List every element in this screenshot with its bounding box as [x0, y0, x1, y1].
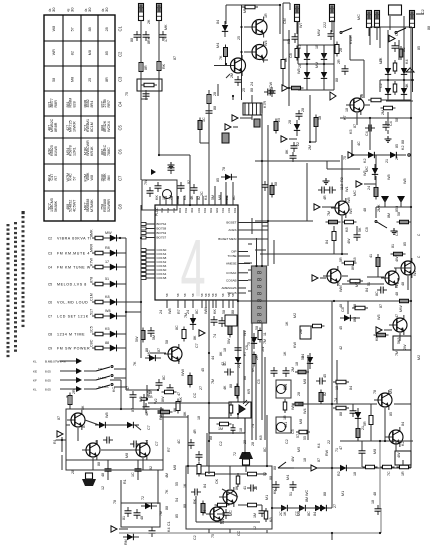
svg-text:58: 58 [52, 78, 56, 82]
svg-text:8MK: 8MK [90, 229, 94, 237]
svg-text:2C: 2C [200, 191, 204, 196]
svg-text:4W: 4W [291, 456, 295, 462]
svg-text:88: 88 [105, 341, 109, 345]
svg-text:82: 82 [323, 392, 327, 396]
svg-text:VOL.MD LOUD: VOL.MD LOUD [57, 301, 88, 305]
svg-text:48: 48 [339, 304, 343, 308]
svg-text:B00: B00 [190, 208, 194, 213]
svg-text:28: 28 [288, 120, 292, 124]
svg-text:COSAF: COSAF [226, 271, 237, 275]
svg-text:57: 57 [73, 176, 77, 180]
svg-text:8C: 8C [375, 291, 379, 296]
svg-text:858: 858 [395, 206, 399, 212]
svg-text:W8: W8 [387, 174, 391, 180]
svg-text:M8: M8 [373, 449, 377, 454]
svg-text:78: 78 [113, 500, 117, 504]
svg-text:WR: WR [52, 49, 56, 55]
svg-text:55: 55 [303, 436, 307, 440]
svg-text:MC: MC [229, 510, 233, 516]
svg-text:2M: 2M [381, 110, 385, 115]
svg-text:18: 18 [315, 45, 319, 49]
svg-text:51: 51 [105, 277, 109, 281]
svg-text:CC: CC [237, 530, 241, 536]
svg-text:84: 84 [203, 484, 207, 488]
svg-text:MK7: MK7 [84, 202, 88, 210]
svg-text:8R4: 8R4 [90, 101, 94, 108]
svg-text:45: 45 [201, 368, 205, 372]
svg-text:25: 25 [277, 118, 281, 122]
svg-text:8R: 8R [144, 65, 148, 70]
svg-text:B03: B03 [233, 208, 237, 213]
svg-text:88: 88 [243, 376, 247, 380]
svg-text:487: 487 [48, 125, 52, 131]
svg-text:28: 28 [339, 48, 343, 52]
svg-text:87: 87 [82, 424, 86, 428]
svg-text:12: 12 [253, 526, 257, 530]
svg-text:18: 18 [162, 196, 166, 200]
svg-text:B04: B04 [184, 208, 188, 213]
svg-text:2M: 2M [299, 329, 303, 334]
svg-text:2MK: 2MK [377, 204, 381, 212]
svg-text:8C: 8C [307, 511, 311, 516]
svg-text:R8: R8 [105, 246, 110, 250]
svg-text:4W: 4W [347, 238, 351, 244]
svg-text:1K: 1K [285, 321, 289, 326]
svg-text:B07: B07 [227, 208, 231, 213]
svg-text:24: 24 [367, 186, 371, 190]
svg-text:88: 88 [145, 348, 149, 352]
svg-text:85: 85 [95, 440, 99, 444]
svg-text:25: 25 [88, 78, 92, 82]
svg-text:88: 88 [209, 436, 213, 440]
svg-text:27: 27 [199, 386, 203, 390]
svg-text:48: 48 [373, 492, 377, 496]
svg-text:1R: 1R [401, 471, 405, 476]
svg-text:KK: KK [213, 309, 217, 314]
svg-text:1K: 1K [283, 511, 287, 516]
svg-text:W8: W8 [168, 308, 172, 314]
svg-text:C6: C6 [48, 301, 52, 305]
svg-text:8R: 8R [149, 389, 153, 394]
svg-text:M54: M54 [66, 148, 70, 155]
svg-text:7M: 7M [327, 211, 331, 216]
svg-text:58: 58 [255, 326, 259, 330]
svg-text:W5: W5 [377, 314, 381, 320]
svg-text:58: 58 [301, 356, 305, 360]
svg-text:VIBRA 60KVA TI: VIBRA 60KVA TI [57, 237, 92, 241]
svg-text:C7: C7 [155, 441, 159, 446]
svg-text:222: 222 [323, 22, 327, 28]
svg-text:82: 82 [149, 466, 153, 470]
svg-text:KE: KE [33, 370, 37, 374]
svg-text:85: 85 [389, 412, 393, 416]
svg-text:MC: MC [251, 366, 255, 372]
svg-text:4R: 4R [145, 411, 149, 416]
svg-text:88: 88 [97, 462, 101, 466]
svg-text:AMESE: AMESE [226, 262, 237, 266]
svg-text:8K: 8K [285, 149, 289, 154]
svg-text:R7: R7 [243, 351, 247, 356]
svg-text:C7: C7 [147, 425, 151, 430]
svg-text:85: 85 [417, 46, 421, 50]
svg-text:88: 88 [250, 88, 254, 92]
svg-text:M8: M8 [71, 77, 75, 82]
svg-text:8: 8 [257, 305, 264, 309]
svg-text:K8: K8 [183, 195, 187, 200]
svg-text:72: 72 [141, 496, 145, 500]
svg-text:7K: 7K [219, 55, 223, 60]
svg-text:KR: KR [247, 389, 251, 394]
svg-text:C2: C2 [193, 535, 197, 540]
svg-text:C2: C2 [379, 83, 383, 88]
svg-text:PLCC: PLCC [155, 207, 159, 216]
svg-text:C8: C8 [48, 333, 52, 337]
svg-text:W8: W8 [105, 412, 109, 418]
svg-text:1M: 1M [218, 427, 223, 431]
svg-text:488: 488 [66, 204, 70, 210]
svg-text:B07: B07 [197, 208, 201, 213]
svg-text:K2: K2 [363, 158, 367, 163]
svg-text:87C: 87C [101, 100, 105, 107]
svg-text:S8: S8 [214, 293, 218, 297]
svg-text:C3: C3 [118, 76, 123, 82]
svg-text:W.7.M L: W.7.M L [98, 385, 109, 389]
svg-text:TO BE: TO BE [228, 254, 237, 258]
svg-text:R7: R7 [167, 447, 171, 452]
svg-text:481: 481 [284, 422, 288, 428]
svg-text:4C: 4C [177, 439, 181, 444]
svg-text:KL: KL [33, 360, 37, 364]
svg-text:C8: C8 [289, 53, 293, 58]
svg-text:K7R: K7R [263, 100, 267, 108]
svg-text:M4: M4 [389, 389, 393, 394]
svg-text:K8: K8 [269, 517, 273, 522]
svg-text:5K: 5K [81, 405, 85, 410]
svg-text:88: 88 [165, 506, 169, 510]
svg-text:4C: 4C [223, 361, 227, 366]
svg-text:52: 52 [263, 472, 267, 476]
svg-text:47: 47 [177, 392, 181, 396]
svg-text:M8: M8 [218, 195, 222, 200]
svg-text:5M: 5M [211, 195, 215, 200]
svg-text:4K: 4K [405, 83, 409, 88]
svg-text:MC: MC [357, 14, 361, 20]
svg-text:5C1: 5C1 [84, 124, 88, 131]
svg-text:88: 88 [401, 140, 405, 144]
svg-text:K8: K8 [345, 227, 349, 232]
svg-text:C5: C5 [257, 379, 261, 384]
svg-text:RK: RK [193, 498, 197, 504]
svg-text:74: 74 [213, 334, 217, 338]
svg-text:58: 58 [397, 212, 401, 216]
svg-text:RR7: RR7 [107, 100, 111, 107]
svg-text:K7W: K7W [90, 257, 94, 266]
svg-text:88: 88 [88, 27, 92, 31]
svg-text:8M: 8M [107, 175, 111, 180]
svg-text:B02: B02 [172, 208, 176, 213]
svg-text:R8: R8 [225, 195, 229, 200]
svg-text:4s: 4s [101, 8, 105, 12]
svg-text:8M: 8M [387, 213, 391, 218]
svg-text:M8: M8 [125, 453, 129, 458]
svg-text:C5: C5 [291, 429, 295, 434]
svg-text:W8: W8 [52, 26, 56, 32]
svg-text:88: 88 [213, 106, 217, 110]
svg-text:5K: 5K [358, 227, 362, 232]
svg-text:51: 51 [289, 492, 293, 496]
svg-text:8M: 8M [305, 497, 309, 502]
svg-text:1R: 1R [264, 13, 268, 18]
svg-text:828: 828 [73, 101, 77, 107]
svg-text:11.5 K: 11.5 K [98, 376, 106, 380]
svg-text:47: 47 [395, 314, 399, 318]
svg-text:45: 45 [339, 326, 343, 330]
svg-text:78: 78 [222, 167, 226, 171]
svg-text:C8C: C8C [90, 339, 94, 347]
svg-text:18: 18 [353, 472, 357, 476]
svg-text:8M: 8M [353, 317, 357, 322]
svg-text:C2: C2 [48, 237, 52, 241]
svg-text:8.05: 8.05 [45, 379, 51, 383]
svg-text:8.05: 8.05 [45, 370, 51, 374]
svg-text:758: 758 [101, 204, 105, 210]
svg-text:81: 81 [391, 244, 395, 248]
svg-text:C8: C8 [365, 227, 369, 232]
svg-text:FM SW POWER: FM SW POWER [57, 347, 90, 351]
svg-text:M4: M4 [286, 475, 290, 480]
svg-text:81W8: 81W8 [54, 146, 58, 156]
svg-text:C2: C2 [285, 439, 289, 444]
svg-text:44: 44 [211, 356, 215, 360]
svg-text:BGSET MESI: BGSET MESI [218, 237, 236, 241]
svg-text:8C: 8C [175, 325, 179, 330]
svg-text:4W: 4W [395, 256, 399, 262]
svg-text:28: 28 [297, 392, 301, 396]
svg-text:87: 87 [317, 458, 321, 462]
svg-text:18: 18 [197, 416, 201, 420]
svg-text:45: 45 [323, 374, 327, 378]
svg-text:W4: W4 [264, 40, 268, 46]
svg-text:8RK: 8RK [147, 36, 151, 44]
svg-text:MW: MW [105, 231, 112, 235]
svg-text:C5: C5 [118, 124, 123, 130]
svg-text:K2: K2 [401, 441, 405, 446]
svg-text:K4: K4 [204, 195, 208, 200]
svg-text:5R: 5R [363, 421, 367, 426]
svg-text:821: 821 [48, 101, 52, 107]
svg-text:M4: M4 [216, 43, 220, 48]
svg-text:5C7: 5C7 [48, 203, 52, 210]
svg-text:M1: M1 [265, 495, 269, 500]
svg-text:1M: 1M [253, 513, 257, 518]
svg-text:2M: 2M [308, 145, 312, 150]
svg-text:82: 82 [71, 51, 75, 55]
svg-text:MELOD.LVS 8: MELOD.LVS 8 [57, 283, 87, 287]
svg-text:84: 84 [349, 386, 353, 390]
svg-text:W7M: W7M [66, 173, 70, 182]
svg-text:W1: W1 [345, 186, 349, 192]
svg-text:2M: 2M [291, 367, 295, 372]
svg-text:8W: 8W [351, 264, 355, 270]
svg-text:1K: 1K [183, 483, 187, 488]
svg-text:KK: KK [179, 397, 183, 402]
svg-text:81: 81 [122, 516, 126, 520]
svg-text:84: 84 [145, 440, 149, 444]
svg-text:W2: W2 [413, 270, 417, 276]
svg-text:W5: W5 [363, 170, 367, 176]
svg-text:28: 28 [71, 470, 75, 474]
svg-text:8: 8 [257, 312, 264, 316]
svg-text:WM: WM [339, 285, 343, 292]
svg-text:2K: 2K [147, 19, 151, 24]
svg-text:47: 47 [339, 446, 343, 450]
svg-text:87: 87 [157, 348, 161, 352]
svg-text:M7: M7 [379, 59, 383, 64]
svg-text:B01: B01 [221, 208, 225, 213]
svg-text:8C: 8C [195, 309, 199, 314]
svg-text:427: 427 [66, 125, 70, 131]
svg-text:1K: 1K [283, 351, 287, 356]
svg-text:82: 82 [187, 180, 191, 184]
svg-text:C4: C4 [389, 121, 393, 126]
svg-text:CC: CC [193, 392, 197, 398]
svg-text:8K: 8K [173, 407, 177, 412]
svg-text:88: 88 [427, 26, 431, 30]
svg-text:8: 8 [257, 319, 264, 323]
svg-text:BO7S3: BO7S3 [157, 231, 167, 235]
svg-text:C7: C7 [48, 315, 52, 319]
svg-text:18: 18 [303, 458, 307, 462]
svg-text:C8: C8 [118, 203, 123, 209]
svg-text:18: 18 [345, 108, 349, 112]
svg-text:17: 17 [105, 260, 109, 264]
svg-text:8C: 8C [232, 195, 236, 200]
svg-text:4s: 4s [67, 8, 71, 12]
svg-text:C4: C4 [118, 101, 123, 107]
svg-text:8K: 8K [401, 327, 405, 332]
svg-text:78: 78 [373, 390, 377, 394]
svg-text:C5: C5 [48, 283, 52, 287]
svg-text:85: 85 [175, 514, 179, 518]
svg-text:K5: K5 [177, 357, 181, 362]
svg-text:58: 58 [395, 118, 399, 122]
svg-text:M8: M8 [303, 379, 307, 384]
svg-text:4R: 4R [323, 195, 327, 200]
svg-text:8R: 8R [105, 77, 109, 82]
svg-text:W7: W7 [299, 22, 303, 28]
svg-text:MM: MM [243, 7, 247, 13]
svg-text:1C: 1C [131, 472, 135, 477]
svg-text:R2: R2 [337, 471, 341, 476]
svg-text:1234 M TIME: 1234 M TIME [57, 333, 85, 337]
svg-text:71: 71 [335, 448, 339, 452]
svg-text:7W: 7W [144, 179, 148, 185]
svg-text:C9: C9 [48, 347, 52, 351]
svg-text:7K: 7K [133, 361, 137, 366]
svg-text:8C1M: 8C1M [90, 122, 94, 132]
svg-text:W8: W8 [90, 175, 94, 181]
svg-text:12: 12 [101, 486, 105, 490]
svg-text:C3: C3 [48, 252, 52, 256]
svg-text:WM: WM [291, 403, 295, 410]
svg-text:K4: K4 [405, 59, 409, 64]
svg-text:BGSET: BGSET [226, 221, 236, 225]
svg-text:8C: 8C [162, 375, 166, 380]
svg-text:C4: C4 [365, 131, 369, 136]
svg-text:8K: 8K [183, 411, 187, 416]
svg-text:S8: S8 [183, 293, 187, 297]
svg-text:B06: B06 [166, 208, 170, 213]
svg-text:28: 28 [243, 440, 247, 444]
svg-text:C1M: C1M [90, 293, 94, 301]
svg-text:M1R: M1R [84, 147, 88, 155]
svg-text:DIP: DIP [231, 250, 236, 254]
svg-text:27: 27 [395, 156, 399, 160]
svg-text:41: 41 [369, 254, 373, 258]
svg-text:2R: 2R [337, 59, 341, 64]
svg-text:4M: 4M [165, 473, 169, 478]
svg-text:K2M: K2M [84, 174, 88, 182]
svg-text:8K: 8K [219, 351, 223, 356]
svg-text:51: 51 [367, 282, 371, 286]
svg-text:ACES: ACES [228, 228, 236, 232]
svg-text:W5: W5 [349, 208, 353, 214]
svg-text:8: 8 [257, 270, 264, 274]
svg-text:18: 18 [239, 428, 243, 432]
svg-text:2M8: 2M8 [101, 174, 105, 181]
svg-text:B03: B03 [203, 208, 207, 213]
svg-text:87: 87 [173, 56, 177, 60]
svg-text:WW: WW [181, 369, 185, 376]
svg-text:8K: 8K [284, 57, 288, 62]
svg-text:888: 888 [101, 125, 105, 131]
svg-text:28: 28 [360, 94, 364, 98]
svg-text:28: 28 [301, 108, 305, 112]
svg-text:4K: 4K [223, 385, 227, 390]
svg-text:W8: W8 [105, 309, 111, 313]
svg-text:CO1S8: CO1S8 [157, 276, 167, 280]
svg-text:AMESIA2S: AMESIA2S [221, 286, 236, 290]
svg-text:58: 58 [165, 340, 169, 344]
svg-text:75: 75 [247, 342, 251, 346]
svg-text:M1: M1 [341, 491, 345, 496]
svg-text:C7: C7 [118, 175, 123, 181]
svg-text:KR: KR [287, 39, 291, 44]
svg-text:MW: MW [399, 305, 403, 312]
svg-text:5W: 5W [227, 338, 231, 344]
svg-text:55: 55 [175, 482, 179, 486]
svg-text:7M: 7M [263, 339, 267, 344]
svg-text:W8: W8 [347, 197, 351, 203]
svg-text:84: 84 [313, 512, 317, 516]
svg-text:S8: S8 [176, 293, 180, 297]
svg-text:K2: K2 [401, 145, 405, 150]
svg-text:K5: K5 [105, 327, 110, 331]
svg-text:M7M8K: M7M8K [90, 199, 94, 212]
svg-text:1R: 1R [283, 415, 287, 420]
svg-text:517: 517 [90, 309, 94, 315]
svg-text:K8: K8 [105, 295, 110, 299]
svg-text:W4: W4 [303, 408, 307, 414]
svg-text:22: 22 [327, 440, 331, 444]
svg-text:8C: 8C [402, 47, 406, 52]
svg-text:5M: 5M [152, 335, 156, 340]
svg-text:C2: C2 [118, 51, 123, 57]
svg-text:84: 84 [365, 288, 369, 292]
svg-text:W8: W8 [403, 178, 407, 184]
svg-text:74: 74 [251, 424, 255, 428]
svg-text:LCD SET 121K: LCD SET 121K [57, 315, 89, 319]
